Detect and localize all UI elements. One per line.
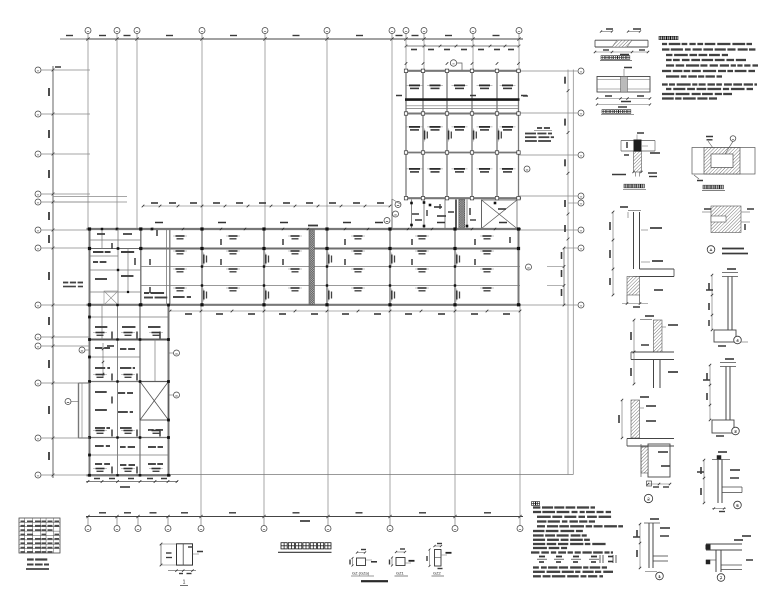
svg-text:GZ (GZa): GZ (GZa)	[352, 571, 370, 576]
svg-text:GZ1: GZ1	[396, 571, 405, 576]
svg-text:1: 1	[183, 580, 186, 586]
svg-text:GZ2: GZ2	[433, 571, 442, 576]
svg-text:A: A	[710, 247, 713, 252]
